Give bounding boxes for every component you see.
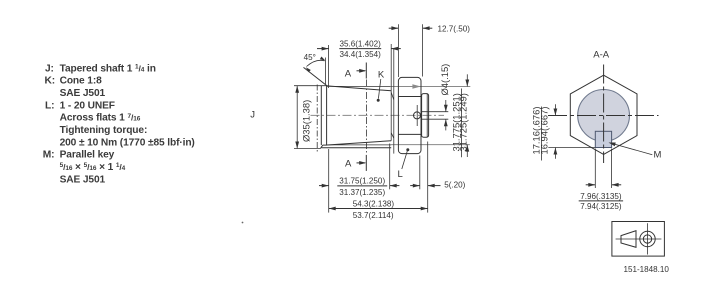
svg-text:A: A xyxy=(345,159,352,170)
svg-text:L: L xyxy=(398,169,403,180)
svg-text:K: K xyxy=(378,70,385,81)
svg-text:J: J xyxy=(250,109,255,120)
svg-text:54.3(2.138): 54.3(2.138) xyxy=(353,199,395,208)
svg-text:200 ± 10 Nm (1770 ±85 lbf·in): 200 ± 10 Nm (1770 ±85 lbf·in) xyxy=(60,137,195,148)
svg-text:31.37(1.235): 31.37(1.235) xyxy=(339,188,385,197)
svg-text:M: M xyxy=(654,150,662,161)
svg-text:Ø35(1.38): Ø35(1.38) xyxy=(300,100,311,142)
svg-text:SAE J501: SAE J501 xyxy=(60,88,106,99)
svg-text:SAE J501: SAE J501 xyxy=(60,174,106,185)
svg-text:151-1848.10: 151-1848.10 xyxy=(623,265,669,274)
svg-text:Ø4(.15): Ø4(.15) xyxy=(439,64,450,96)
svg-text:J:: J: xyxy=(45,63,54,74)
svg-text:31.725(1.249): 31.725(1.249) xyxy=(458,93,469,151)
svg-text:12.7(.50): 12.7(.50) xyxy=(438,24,471,33)
svg-text:53.7(2.114): 53.7(2.114) xyxy=(353,211,394,220)
svg-text:K:: K: xyxy=(45,76,56,87)
svg-text:16.94(.667): 16.94(.667) xyxy=(538,107,549,155)
svg-text:35.6(1.402): 35.6(1.402) xyxy=(339,39,381,48)
svg-text:M:: M: xyxy=(43,150,55,161)
svg-text:7.94(.3125): 7.94(.3125) xyxy=(580,202,622,211)
svg-text:Parallel key: Parallel key xyxy=(60,150,115,161)
svg-text:7.96(.3135): 7.96(.3135) xyxy=(580,192,622,201)
svg-text:45°: 45° xyxy=(304,53,316,62)
svg-text:Tightening torque:: Tightening torque: xyxy=(60,125,148,136)
svg-text:A-A: A-A xyxy=(593,50,610,61)
svg-text:1 - 20 UNEF: 1 - 20 UNEF xyxy=(60,100,115,111)
svg-text:34.4(1.354): 34.4(1.354) xyxy=(339,50,381,59)
svg-text:Cone 1:8: Cone 1:8 xyxy=(60,76,103,87)
svg-text:L:: L: xyxy=(45,100,54,111)
svg-text:A: A xyxy=(345,68,352,79)
svg-text:5(.20): 5(.20) xyxy=(444,181,465,190)
svg-text:31.75(1.250): 31.75(1.250) xyxy=(339,177,385,186)
